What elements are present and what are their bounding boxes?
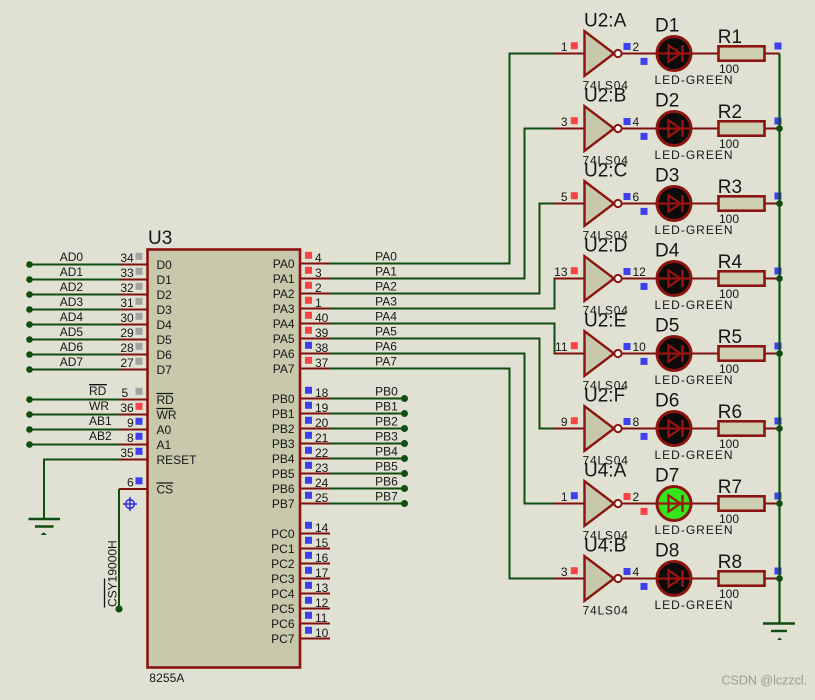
svg-text:16: 16 [315, 551, 329, 565]
U3 pin 33 (D1) [119, 266, 172, 287]
svg-text:PA7: PA7 [375, 355, 397, 369]
svg-text:PB7: PB7 [375, 490, 398, 504]
net label PB6 [375, 475, 398, 489]
wire D1 to R1 [691, 53, 718, 55]
wire D8 to R8 [691, 578, 718, 580]
wire net AD4 [26, 321, 119, 328]
svg-text:PA1: PA1 [375, 265, 397, 279]
svg-text:PC3: PC3 [271, 572, 295, 586]
resistor R6 [719, 421, 780, 435]
U2:B input pin 3 [561, 115, 578, 129]
svg-text:1: 1 [561, 490, 568, 504]
svg-text:U4:A: U4:A [584, 460, 627, 481]
svg-text:PB1: PB1 [272, 407, 295, 421]
U3 pin 1 (PA3) [273, 296, 330, 316]
svg-text:PA2: PA2 [375, 280, 397, 294]
net label PA1 [375, 265, 397, 279]
U3 pin 32 (D2) [119, 281, 172, 302]
svg-text:PA6: PA6 [375, 340, 397, 354]
svg-text:U4:B: U4:B [584, 535, 626, 556]
svg-text:13: 13 [315, 581, 329, 595]
svg-text:A0: A0 [157, 423, 172, 437]
U4:A value label 74LS04 [583, 529, 629, 543]
net label PA5 [375, 325, 397, 339]
svg-text:29: 29 [120, 326, 134, 340]
IC U3 8255A body [148, 250, 301, 668]
svg-text:U2:C: U2:C [584, 160, 627, 181]
svg-text:74LS04: 74LS04 [583, 604, 629, 618]
R2 value label 100 [719, 137, 739, 151]
svg-text:PA4: PA4 [273, 317, 295, 331]
svg-text:100: 100 [719, 62, 739, 76]
R5 reference label [718, 327, 742, 348]
origin marker (crosshair) [123, 497, 137, 511]
svg-text:1: 1 [315, 296, 322, 310]
svg-text:AD5: AD5 [60, 325, 84, 339]
wire D4 to R4 [691, 278, 718, 280]
wire PA6 to U4:A [330, 354, 555, 504]
net label PB3 [375, 430, 398, 444]
svg-text:8: 8 [127, 431, 134, 445]
svg-text:30: 30 [120, 311, 134, 325]
resistor R2 [719, 121, 780, 135]
svg-text:WR: WR [89, 399, 109, 413]
svg-text:U2:E: U2:E [584, 310, 626, 331]
U3 pin 2 (PA2) [273, 281, 330, 301]
node R7 / rail junction [775, 493, 783, 507]
svg-text:40: 40 [315, 311, 329, 325]
U3 reference label [148, 228, 172, 249]
svg-text:21: 21 [315, 431, 329, 445]
wire ground rail (right) [778, 54, 780, 624]
inverter U2:C (74LS04) [554, 160, 657, 226]
svg-text:D7: D7 [655, 466, 679, 487]
node R4 / rail junction [775, 268, 783, 282]
svg-text:PA2: PA2 [273, 287, 295, 301]
svg-text:13: 13 [554, 265, 568, 279]
inverter U4:A (74LS04) [554, 460, 657, 526]
U4:A output pin 2 [624, 490, 640, 504]
wire net AD1 [26, 276, 119, 283]
svg-text:6: 6 [127, 476, 134, 490]
U2:A value label 74LS04 [583, 79, 629, 93]
svg-text:12: 12 [315, 596, 329, 610]
U3 pin 5 (RD) [119, 386, 174, 407]
svg-text:PA3: PA3 [375, 295, 397, 309]
svg-text:D1: D1 [157, 273, 173, 287]
svg-text:10: 10 [315, 626, 329, 640]
U3 pin 30 (D4) [119, 311, 172, 332]
net label PA4 [375, 310, 397, 324]
svg-text:23: 23 [315, 461, 329, 475]
svg-text:9: 9 [561, 415, 568, 429]
U3 pin 35 (RESET) [119, 446, 197, 467]
wire net AD0 [26, 261, 119, 268]
svg-text:D4: D4 [157, 318, 173, 332]
R4 reference label [718, 252, 743, 273]
net label AD3 [60, 295, 84, 309]
node R1 / rail junction [775, 43, 782, 50]
svg-text:D6: D6 [655, 391, 679, 412]
U3 pin 12 (PC5) [271, 596, 330, 616]
resistor R7 [719, 496, 780, 510]
resistor R4 [719, 271, 780, 285]
D3 reference label [655, 166, 679, 187]
U2:D value label 74LS04 [583, 304, 629, 318]
wire D2 to R2 [691, 128, 718, 130]
svg-text:AD7: AD7 [60, 355, 84, 369]
LED D3 [641, 187, 692, 221]
U2:A output pin 2 [624, 40, 640, 54]
wire net AB1 [26, 426, 119, 433]
svg-text:R7: R7 [718, 477, 742, 498]
svg-text:100: 100 [719, 512, 739, 526]
svg-text:PA0: PA0 [273, 257, 295, 271]
svg-text:D5: D5 [157, 333, 173, 347]
svg-text:U2:B: U2:B [584, 85, 626, 106]
U3 pin 19 (PB1) [272, 401, 330, 421]
wire PA7 to U4:B [330, 369, 555, 579]
svg-text:PB7: PB7 [272, 497, 295, 511]
wire net AD5 [26, 336, 119, 343]
svg-text:11: 11 [555, 340, 568, 354]
svg-text:28: 28 [120, 341, 134, 355]
svg-text:PA4: PA4 [375, 310, 397, 324]
svg-text:PA6: PA6 [273, 347, 295, 361]
svg-text:RD: RD [89, 384, 107, 398]
D7 reference label [655, 466, 679, 487]
svg-text:PB3: PB3 [272, 437, 295, 451]
wire D7 to R7 [691, 503, 718, 505]
U2:D output pin 12 [624, 265, 647, 279]
D2 value label LED-GREEN [655, 148, 734, 162]
svg-text:18: 18 [315, 386, 329, 400]
wire PA2 to U2:C [330, 204, 555, 294]
resistor R1 [719, 46, 780, 60]
net label PA3 [375, 295, 397, 309]
svg-text:AB1: AB1 [89, 414, 112, 428]
svg-text:35: 35 [120, 446, 134, 460]
svg-text:RESET: RESET [157, 453, 198, 467]
svg-text:14: 14 [315, 521, 329, 535]
ground (left) [29, 519, 61, 535]
D6 value label LED-GREEN [655, 448, 734, 462]
R6 reference label [718, 402, 742, 423]
U3 pin 31 (D3) [119, 296, 172, 317]
U2:B value label 74LS04 [583, 154, 629, 168]
svg-text:100: 100 [719, 137, 739, 151]
U3 pin 40 (PA4) [273, 311, 330, 331]
net label PB2 [375, 415, 398, 429]
net label PA0 [375, 250, 397, 264]
R7 reference label [718, 477, 742, 498]
svg-text:6: 6 [633, 190, 640, 204]
wire net AD2 [26, 291, 119, 298]
R1 reference label [718, 27, 742, 48]
svg-text:D5: D5 [655, 316, 679, 337]
D4 reference label [655, 241, 680, 262]
svg-text:34: 34 [120, 251, 134, 265]
inverter U4:B (74LS04) [554, 535, 657, 601]
U2:E input pin 11 [555, 340, 578, 354]
U2:C value label 74LS04 [583, 229, 629, 243]
watermark [722, 674, 808, 688]
U3 pin 6 (CS) [119, 476, 173, 497]
svg-text:22: 22 [315, 446, 329, 460]
svg-text:AD3: AD3 [60, 295, 84, 309]
net label RD [89, 384, 107, 398]
node R5 / rail junction [775, 343, 783, 357]
svg-text:AD4: AD4 [60, 310, 84, 324]
U3 pin 36 (WR) [119, 401, 177, 422]
svg-text:R4: R4 [718, 252, 743, 273]
svg-text:D6: D6 [157, 348, 173, 362]
wire PA1 to U2:B [330, 129, 555, 279]
svg-text:U2:F: U2:F [584, 385, 625, 406]
U3 pin 9 (A0) [119, 416, 172, 437]
svg-text:U3: U3 [148, 228, 172, 249]
svg-text:D8: D8 [655, 541, 679, 562]
net label AD7 [60, 355, 84, 369]
svg-text:11: 11 [315, 611, 328, 625]
net label PB7 [375, 490, 398, 504]
svg-text:PB4: PB4 [375, 445, 398, 459]
U3 pin 38 (PA6) [273, 341, 330, 361]
R5 value label 100 [719, 362, 739, 376]
svg-text:2: 2 [315, 281, 322, 295]
svg-text:WR: WR [157, 408, 177, 422]
svg-text:100: 100 [719, 587, 739, 601]
ground (bottom right) [763, 624, 795, 641]
svg-text:31: 31 [120, 296, 134, 310]
U3 pin 15 (PC1) [271, 536, 330, 556]
U3 value label 8255A [149, 671, 184, 685]
svg-text:3: 3 [315, 266, 322, 280]
svg-text:PC1: PC1 [271, 542, 295, 556]
svg-text:PB6: PB6 [375, 475, 398, 489]
svg-text:8255A: 8255A [149, 671, 184, 685]
svg-text:8: 8 [633, 415, 640, 429]
D1 reference label [655, 16, 679, 37]
svg-text:PB2: PB2 [272, 422, 295, 436]
svg-text:PB0: PB0 [272, 392, 295, 406]
D6 reference label [655, 391, 679, 412]
R8 value label 100 [719, 587, 739, 601]
wire net AD3 [26, 306, 119, 313]
svg-text:1: 1 [561, 40, 568, 54]
wire net RD [26, 396, 119, 403]
D1 value label LED-GREEN [655, 73, 734, 87]
svg-text:17: 17 [315, 566, 329, 580]
svg-text:PA1: PA1 [273, 272, 295, 286]
svg-text:RD: RD [157, 393, 175, 407]
D2 reference label [655, 91, 679, 112]
R8 reference label [718, 552, 742, 573]
resistor R3 [719, 196, 780, 210]
wire net PB2 [330, 425, 408, 432]
R7 value label 100 [719, 512, 739, 526]
wire net WR [26, 411, 119, 418]
svg-text:2: 2 [633, 40, 640, 54]
U3 pin 28 (D6) [119, 341, 172, 362]
inverter U2:E (74LS04) [554, 310, 657, 376]
U2:E output pin 10 [624, 340, 647, 354]
svg-text:R1: R1 [718, 27, 742, 48]
svg-text:100: 100 [719, 287, 739, 301]
D5 value label LED-GREEN [655, 373, 734, 387]
svg-text:3: 3 [561, 115, 568, 129]
svg-text:D4: D4 [655, 241, 680, 262]
wire net PB7 [330, 500, 408, 507]
svg-text:PA5: PA5 [375, 325, 397, 339]
node R3 / rail junction [775, 193, 783, 207]
net label AB1 [89, 414, 112, 428]
wire PA3 to U2:D [330, 279, 555, 309]
net label AD1 [60, 265, 84, 279]
wire D3 to R3 [691, 203, 718, 205]
node R2 / rail junction [775, 118, 783, 132]
svg-text:PC5: PC5 [271, 602, 295, 616]
U2:D input pin 13 [554, 265, 578, 279]
net label AD5 [60, 325, 84, 339]
wire net PB5 [330, 470, 408, 477]
wire net PB0 [330, 395, 408, 402]
svg-text:CSDN @lczzcl.: CSDN @lczzcl. [722, 674, 808, 688]
svg-text:24: 24 [315, 476, 329, 490]
U2:E value label 74LS04 [583, 379, 629, 393]
inverter U2:D (74LS04) [554, 235, 657, 300]
LED D6 [641, 412, 692, 446]
D3 value label LED-GREEN [655, 223, 734, 237]
U2:C input pin 5 [561, 190, 578, 204]
U3 pin 24 (PB6) [272, 476, 330, 496]
svg-text:PB0: PB0 [375, 385, 398, 399]
svg-text:4: 4 [315, 251, 322, 265]
U3 pin 29 (D5) [119, 326, 172, 347]
U3 pin 20 (PB2) [272, 416, 330, 436]
svg-text:12: 12 [633, 265, 647, 279]
LED D8 [641, 562, 692, 596]
D8 reference label [655, 541, 679, 562]
svg-text:PA7: PA7 [273, 362, 295, 376]
R4 value label 100 [719, 287, 739, 301]
U3 pin 23 (PB5) [272, 461, 330, 481]
svg-text:PB3: PB3 [375, 430, 398, 444]
resistor R5 [719, 346, 780, 360]
svg-text:D7: D7 [157, 363, 173, 377]
svg-text:PC4: PC4 [271, 587, 295, 601]
net label PB4 [375, 445, 398, 459]
U3 pin 4 (PA0) [273, 251, 330, 271]
svg-text:4: 4 [633, 565, 640, 579]
svg-text:D1: D1 [655, 16, 679, 37]
svg-text:R8: R8 [718, 552, 742, 573]
R6 value label 100 [719, 437, 739, 451]
wire net PB4 [330, 455, 408, 462]
LED D5 [641, 337, 692, 371]
svg-text:PC0: PC0 [271, 527, 295, 541]
svg-text:PB2: PB2 [375, 415, 398, 429]
svg-text:D0: D0 [157, 258, 173, 272]
U3 pin 37 (PA7) [273, 356, 330, 376]
U2:F input pin 9 [561, 415, 578, 429]
svg-text:AB2: AB2 [89, 429, 112, 443]
D5 reference label [655, 316, 679, 337]
R3 reference label [718, 177, 742, 198]
wire net PB1 [330, 410, 408, 417]
svg-text:R6: R6 [718, 402, 742, 423]
U3 pin 25 (PB7) [272, 491, 330, 511]
U2:F value label 74LS04 [583, 454, 629, 468]
svg-text:U2:D: U2:D [584, 235, 627, 256]
net label CSY19000H [105, 540, 120, 607]
svg-text:39: 39 [315, 326, 329, 340]
U4:B input pin 3 [561, 565, 578, 579]
svg-text:D3: D3 [157, 303, 173, 317]
svg-text:32: 32 [120, 281, 134, 295]
inverter U2:F (74LS04) [554, 385, 657, 451]
D7 value label LED-GREEN [655, 523, 734, 537]
wire D6 to R6 [691, 428, 718, 430]
svg-text:PA0: PA0 [375, 250, 397, 264]
svg-text:AD6: AD6 [60, 340, 84, 354]
svg-text:PC6: PC6 [271, 617, 295, 631]
resistor R8 [719, 571, 780, 585]
svg-text:38: 38 [315, 341, 329, 355]
U3 pin 11 (PC6) [271, 611, 330, 631]
R1 value label 100 [719, 62, 739, 76]
svg-text:PB6: PB6 [272, 482, 295, 496]
LED D1 [641, 37, 692, 71]
U3 pin 8 (A1) [119, 431, 172, 452]
R3 value label 100 [719, 212, 739, 226]
wire PA5 to U2:F [330, 339, 555, 429]
wire D5 to R5 [691, 353, 718, 355]
U3 pin 14 (PC0) [271, 521, 330, 541]
D4 value label LED-GREEN [655, 298, 734, 312]
LED D7 [641, 487, 692, 521]
svg-text:33: 33 [120, 266, 134, 280]
net label AD4 [60, 310, 84, 324]
svg-text:4: 4 [633, 115, 640, 129]
wire net PB6 [330, 485, 408, 492]
U3 pin 21 (PB3) [272, 431, 330, 451]
U3 pin 13 (PC4) [271, 581, 330, 601]
inverter U2:A (74LS04) [554, 10, 657, 76]
svg-text:PB1: PB1 [375, 400, 398, 414]
wire net AD7 [26, 366, 119, 373]
svg-text:15: 15 [315, 536, 329, 550]
U2:F output pin 8 [624, 415, 640, 429]
wire RESET to ground [44, 460, 119, 520]
R2 reference label [718, 102, 742, 123]
wire net AD6 [26, 351, 119, 358]
svg-text:PA5: PA5 [273, 332, 295, 346]
svg-text:36: 36 [120, 401, 134, 415]
net label AD0 [60, 250, 84, 264]
net label WR [89, 399, 109, 413]
inverter U2:B (74LS04) [554, 85, 657, 151]
svg-text:PC7: PC7 [271, 632, 295, 646]
svg-text:20: 20 [315, 416, 329, 430]
svg-text:25: 25 [315, 491, 329, 505]
U3 pin 34 (D0) [119, 251, 172, 272]
U4:B output pin 4 [624, 565, 640, 579]
svg-text:100: 100 [719, 362, 739, 376]
U3 pin 17 (PC3) [271, 566, 330, 586]
svg-text:5: 5 [561, 190, 568, 204]
net label PA6 [375, 340, 397, 354]
